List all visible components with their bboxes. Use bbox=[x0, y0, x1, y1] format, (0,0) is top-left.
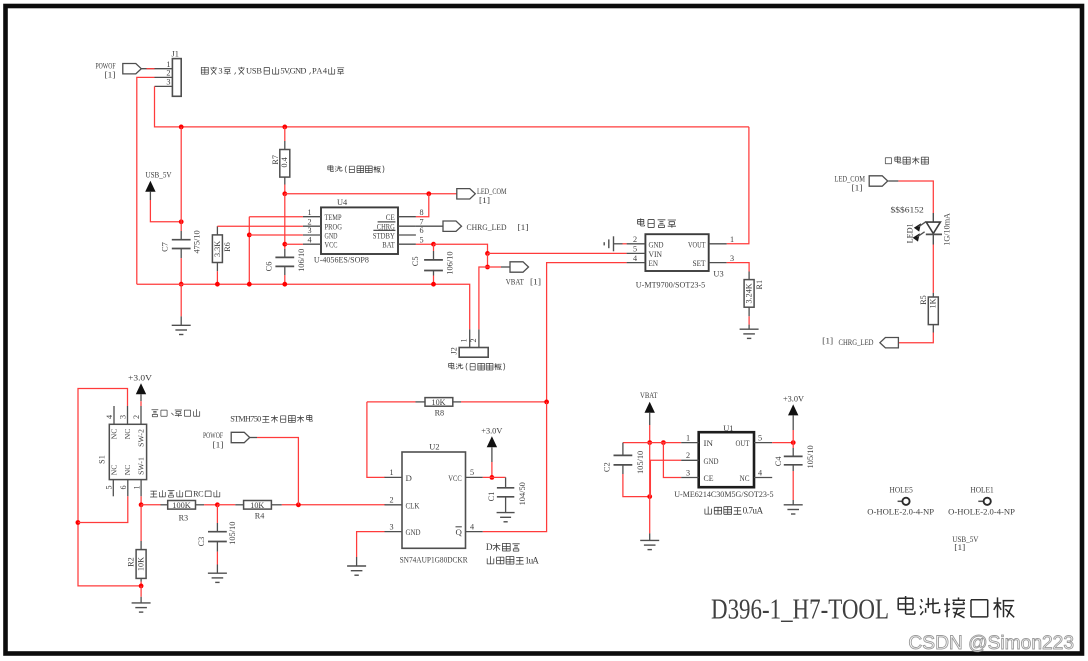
svg-text:5: 5 bbox=[470, 468, 474, 477]
wire PROG pin2 from R6 bbox=[217, 225, 303, 227]
wire VBAT node to J2 pin2 bbox=[479, 267, 488, 329]
ground U2 bbox=[356, 557, 358, 566]
svg-text:GND: GND bbox=[406, 527, 421, 537]
svg-text:PA4: PA4 bbox=[312, 67, 328, 76]
svg-text:2: 2 bbox=[686, 451, 690, 460]
wire S1 pin3 loop bbox=[78, 389, 141, 586]
junction R6/rail bbox=[215, 282, 220, 287]
capacitor C5 bbox=[433, 244, 435, 251]
diode LED1 bbox=[926, 222, 940, 233]
junction GND pin3 node bbox=[247, 233, 252, 238]
svg-text:NC: NC bbox=[109, 429, 118, 440]
svg-text:NC: NC bbox=[123, 465, 132, 476]
wire BAT pin5 bbox=[416, 243, 434, 245]
svg-text:1: 1 bbox=[132, 485, 141, 489]
svg-text:4: 4 bbox=[758, 468, 762, 477]
note charge indicator bbox=[885, 156, 928, 164]
wire U2 GND to ground bbox=[357, 532, 385, 557]
svg-text:POWOF: POWOF bbox=[96, 61, 116, 70]
wire S1 pin6 bbox=[78, 496, 128, 522]
svg-text:2: 2 bbox=[469, 338, 478, 342]
junction R4/POWOF bbox=[296, 502, 301, 507]
svg-text:TEMP: TEMP bbox=[325, 212, 342, 222]
svg-text:R2: R2 bbox=[127, 557, 136, 567]
svg-text:3: 3 bbox=[390, 522, 394, 531]
svg-text:3: 3 bbox=[308, 226, 312, 235]
svg-text:VBAT: VBAT bbox=[640, 390, 658, 400]
wire vertical TEMP-GND-rail bbox=[248, 217, 250, 285]
wire R8 to D pin bbox=[367, 402, 385, 478]
svg-text:U-4056ES/SOP8: U-4056ES/SOP8 bbox=[314, 254, 370, 264]
svg-text:VCC: VCC bbox=[325, 240, 338, 250]
svg-text:C5: C5 bbox=[411, 256, 420, 266]
svg-text:CHRG_LED: CHRG_LED bbox=[839, 338, 874, 347]
note power < 0.7uA bbox=[705, 507, 742, 515]
svg-text:GND: GND bbox=[704, 456, 719, 466]
junction VCC U2 bbox=[490, 475, 495, 480]
svg-text:1G/10mA: 1G/10mA bbox=[943, 213, 952, 246]
op-amp U4 box bbox=[321, 207, 398, 254]
svg-text:U4: U4 bbox=[337, 198, 348, 207]
svg-text:C3: C3 bbox=[197, 537, 206, 547]
svg-text:475/10: 475/10 bbox=[192, 230, 201, 253]
junction R8/EN bbox=[544, 400, 549, 405]
junction VIN node bbox=[485, 251, 490, 256]
svg-text:BAT: BAT bbox=[382, 240, 395, 250]
ground C1 bbox=[497, 512, 515, 514]
svg-text:R5: R5 bbox=[919, 295, 928, 305]
junction 5V rail / R7 branch bbox=[282, 125, 287, 130]
U4 right pin stubs bbox=[398, 216, 416, 218]
svg-text:5: 5 bbox=[104, 485, 113, 489]
resistor R7 bbox=[284, 127, 286, 141]
svg-text:NC: NC bbox=[109, 465, 118, 476]
svg-text:[1]: [1] bbox=[105, 71, 116, 80]
U1 left pins bbox=[681, 442, 699, 444]
capacitor C1 bbox=[505, 477, 507, 487]
junction VCC node bbox=[282, 242, 287, 247]
wire VCC pin4 bbox=[285, 243, 303, 245]
port VBAT bbox=[510, 262, 529, 272]
wire OUT to +3.0V bbox=[772, 442, 793, 444]
svg-text:3.3K: 3.3K bbox=[213, 241, 222, 257]
svg-text:$$$6152: $$$6152 bbox=[891, 205, 924, 215]
U3 pins left bbox=[627, 243, 646, 245]
wire POWOF to CLK net bbox=[250, 437, 257, 439]
svg-text:LED_COM: LED_COM bbox=[835, 174, 866, 183]
svg-text:USB_5V: USB_5V bbox=[146, 170, 173, 180]
svg-text:C4: C4 bbox=[774, 456, 783, 467]
svg-text:1: 1 bbox=[166, 60, 170, 69]
U2 right pins bbox=[466, 476, 483, 478]
op-amp U1 box bbox=[699, 432, 754, 487]
svg-text:3.24K: 3.24K bbox=[744, 283, 753, 303]
wire LED to R5 bbox=[932, 234, 934, 244]
U1 right pins bbox=[754, 442, 772, 444]
svg-text:CLK: CLK bbox=[406, 500, 421, 510]
svg-text:STMH750: STMH750 bbox=[230, 415, 261, 424]
U4 left pin stubs bbox=[303, 216, 321, 218]
U4 STDBY overline bbox=[373, 229, 395, 231]
junction LED_COM / CE branch bbox=[426, 191, 431, 196]
svg-text:0.7uA: 0.7uA bbox=[743, 506, 764, 516]
svg-text:3: 3 bbox=[730, 254, 734, 263]
svg-text:VOUT: VOUT bbox=[688, 239, 706, 249]
svg-text:3: 3 bbox=[166, 78, 170, 87]
svg-text:5: 5 bbox=[420, 235, 424, 244]
svg-text:LED1: LED1 bbox=[905, 223, 914, 243]
svg-text:U3: U3 bbox=[713, 270, 723, 279]
svg-text:2: 2 bbox=[308, 217, 312, 226]
svg-text:105/10: 105/10 bbox=[636, 451, 645, 474]
wire J1 pin2 to GND rail bbox=[137, 77, 155, 284]
svg-text:D: D bbox=[486, 542, 493, 552]
svg-text:4: 4 bbox=[308, 235, 312, 244]
wire USB_5V to node bbox=[150, 200, 181, 222]
junction VBAT node bbox=[485, 265, 490, 270]
svg-text:4: 4 bbox=[105, 415, 114, 419]
svg-text:[1]: [1] bbox=[954, 543, 965, 552]
svg-text:100K: 100K bbox=[172, 501, 191, 510]
ground main rail bbox=[180, 284, 182, 316]
wire C7 branch upper bbox=[180, 127, 182, 222]
svg-text:[1]: [1] bbox=[479, 196, 490, 205]
port LED_COM bbox=[457, 189, 476, 199]
svg-text:NC: NC bbox=[123, 429, 132, 440]
svg-text:CE: CE bbox=[386, 212, 395, 222]
wire LED_COM line bbox=[285, 193, 457, 195]
svg-text:[1]: [1] bbox=[213, 440, 224, 449]
resistor R4 bbox=[244, 501, 272, 510]
junction R3/C3 bbox=[215, 502, 220, 507]
wire GND pin2 U1 bbox=[650, 460, 681, 496]
svg-text:104/50: 104/50 bbox=[518, 482, 527, 505]
switch S1 box bbox=[109, 424, 146, 479]
junction C5/rail bbox=[431, 282, 436, 287]
svg-text:1: 1 bbox=[459, 338, 468, 342]
svg-text:6: 6 bbox=[420, 226, 424, 235]
wire C7 to GND rail bbox=[180, 249, 182, 259]
svg-text:VBAT: VBAT bbox=[506, 276, 525, 286]
svg-text:4: 4 bbox=[633, 254, 637, 263]
junction 5V rail / C7 branch bbox=[179, 125, 184, 130]
wire EN line bbox=[547, 263, 627, 402]
wire R7 node down to VCC node bbox=[284, 194, 286, 244]
svg-text:10K: 10K bbox=[432, 398, 446, 407]
port POWOF (top-left) bbox=[123, 64, 142, 74]
svg-text:5V,GND: 5V,GND bbox=[280, 67, 306, 76]
ground R1 bbox=[748, 325, 750, 330]
note D flip-flop bbox=[493, 543, 520, 551]
svg-text:3: 3 bbox=[119, 415, 128, 419]
junction C7/GND rail bbox=[179, 282, 184, 287]
svg-text:R8: R8 bbox=[435, 409, 445, 418]
capacitor C2 bbox=[622, 443, 624, 447]
wire S1 pin1 down bbox=[140, 496, 142, 505]
note battery with protection (J2) bbox=[449, 363, 505, 371]
wire CE pin8 to LED_COM bbox=[416, 194, 429, 217]
capacitor C7 bbox=[172, 239, 191, 241]
svg-text:1: 1 bbox=[390, 468, 394, 477]
svg-text:J2: J2 bbox=[450, 347, 459, 354]
svg-text:106/10: 106/10 bbox=[445, 251, 454, 274]
wire GND rail bbox=[137, 284, 470, 329]
wire 5V rail down to U3 VOUT bbox=[727, 127, 749, 244]
junction rail/vert bbox=[247, 282, 252, 287]
svg-text:S1: S1 bbox=[97, 455, 106, 464]
junction C6/rail bbox=[282, 282, 287, 287]
capacitor C3 bbox=[216, 505, 218, 523]
junction S1 pin1 node bbox=[139, 502, 144, 507]
svg-text:U-MT9700/SOT23-5: U-MT9700/SOT23-5 bbox=[636, 280, 706, 290]
U4 CHRG overline bbox=[378, 221, 396, 223]
svg-text:CHRG_LED: CHRG_LED bbox=[467, 223, 507, 232]
junction C2 gnd node bbox=[647, 494, 652, 499]
svg-text:1: 1 bbox=[308, 208, 312, 217]
S1 top pins bbox=[113, 406, 115, 424]
svg-text:NC: NC bbox=[740, 473, 750, 483]
svg-text:OUT: OUT bbox=[736, 438, 750, 448]
svg-text:2: 2 bbox=[132, 415, 141, 419]
svg-text:+3.0V: +3.0V bbox=[783, 393, 805, 403]
svg-text:R4: R4 bbox=[255, 511, 265, 520]
junction CE branch bbox=[661, 440, 666, 445]
note power < 1uA bbox=[487, 556, 524, 564]
svg-text:HOLE5: HOLE5 bbox=[890, 485, 913, 494]
svg-text:U1: U1 bbox=[723, 424, 733, 433]
wire SET to R1 bbox=[727, 263, 749, 272]
svg-text:R7: R7 bbox=[271, 155, 280, 165]
svg-text:SET: SET bbox=[693, 258, 707, 268]
capacitor C4 bbox=[792, 443, 794, 448]
wire VCC pin5 bbox=[483, 476, 506, 478]
svg-text:C7: C7 bbox=[161, 242, 170, 252]
svg-text:10K: 10K bbox=[136, 557, 145, 571]
capacitor C6 bbox=[284, 244, 286, 249]
svg-text:IN: IN bbox=[704, 438, 714, 448]
resistor R1 bbox=[748, 272, 750, 280]
junction loop/pin6 bbox=[76, 520, 81, 525]
svg-text:C6: C6 bbox=[264, 262, 273, 272]
U2 left pins bbox=[385, 476, 403, 478]
svg-text:CE: CE bbox=[704, 473, 714, 483]
svg-text:R6: R6 bbox=[223, 242, 232, 252]
wire J2 pin leads bbox=[469, 329, 471, 347]
ground U3 GND pin (left) bbox=[623, 243, 627, 245]
svg-text:O-HOLE-2.0-4-NP: O-HOLE-2.0-4-NP bbox=[948, 508, 1015, 517]
svg-text:1K: 1K bbox=[929, 298, 938, 308]
svg-text:3: 3 bbox=[218, 67, 222, 76]
svg-text:[1]: [1] bbox=[822, 337, 833, 346]
connector J2 bbox=[459, 348, 488, 358]
note power key bbox=[152, 409, 200, 417]
svg-text:SW-2: SW-2 bbox=[136, 429, 145, 447]
junction OUT node bbox=[791, 440, 796, 445]
svg-text:O-HOLE-2.0-4-NP: O-HOLE-2.0-4-NP bbox=[867, 508, 934, 517]
op-amp U2 box bbox=[402, 452, 466, 548]
svg-text:CSDN @Simon223: CSDN @Simon223 bbox=[908, 633, 1074, 654]
svg-text:106/10: 106/10 bbox=[297, 249, 306, 272]
resistor R8 bbox=[367, 401, 416, 403]
ground R2 bbox=[140, 586, 142, 597]
svg-text:VCC: VCC bbox=[448, 473, 462, 483]
svg-text:D396-1_H7-TOOL: D396-1_H7-TOOL bbox=[711, 595, 889, 626]
svg-text:[1]: [1] bbox=[518, 223, 529, 232]
svg-text:C2: C2 bbox=[603, 462, 612, 472]
svg-text:105/10: 105/10 bbox=[228, 522, 237, 545]
svg-text:1: 1 bbox=[686, 433, 690, 442]
wire CE branch bbox=[663, 443, 681, 478]
wire VBAT port stub bbox=[488, 266, 502, 268]
wire POWOF to J1 pin1 bbox=[141, 68, 172, 70]
junction R7 bottom / LED_COM line bbox=[282, 191, 287, 196]
wire node to C7 bbox=[180, 222, 182, 231]
svg-text:J1: J1 bbox=[172, 50, 179, 59]
ground C4 bbox=[792, 500, 794, 505]
wire LED_COM to LED bbox=[888, 180, 898, 182]
junction BAT/C5 bbox=[431, 242, 436, 247]
svg-text:4: 4 bbox=[470, 522, 474, 531]
wire VBAT node down bbox=[649, 443, 651, 497]
wire TEMP pin1 bbox=[249, 216, 303, 218]
op-amp U3 box bbox=[645, 234, 708, 271]
wire VIN line bbox=[488, 252, 627, 254]
wire down to VBAT node bbox=[487, 253, 489, 267]
S1 bottom pins bbox=[112, 480, 114, 497]
svg-text:2: 2 bbox=[633, 235, 637, 244]
wire CHRG pin7 to port bbox=[416, 225, 443, 227]
U3 pins right bbox=[709, 243, 727, 245]
wire Q to EN net bbox=[483, 402, 547, 532]
svg-text:R1: R1 bbox=[755, 280, 764, 290]
resistor R3 bbox=[168, 501, 196, 510]
svg-text:8: 8 bbox=[420, 208, 424, 217]
svg-text:[1]: [1] bbox=[530, 276, 541, 286]
ground C3 bbox=[216, 565, 218, 574]
svg-text:C1: C1 bbox=[487, 492, 496, 502]
svg-text:+3.0V: +3.0V bbox=[481, 426, 503, 436]
port CHRG_LED (U4) bbox=[443, 221, 462, 231]
svg-text:R3: R3 bbox=[179, 513, 189, 522]
resistor R2 bbox=[140, 505, 142, 541]
svg-text:1uA: 1uA bbox=[525, 555, 539, 565]
svg-text:RC: RC bbox=[193, 489, 204, 498]
note STM断电 bbox=[262, 415, 312, 423]
svg-text:USB: USB bbox=[246, 67, 262, 76]
svg-text:6: 6 bbox=[119, 485, 128, 489]
note long-press RC bbox=[150, 490, 220, 497]
wire J1 pin3 to 5V rail bbox=[155, 86, 749, 127]
note battery with protection (top) bbox=[328, 165, 384, 173]
svg-text:SN74AUP1G80DCKR: SN74AUP1G80DCKR bbox=[400, 555, 468, 565]
connector J1 bbox=[172, 59, 181, 97]
svg-text:2: 2 bbox=[390, 496, 394, 505]
svg-text:5: 5 bbox=[758, 433, 762, 442]
port LED_COM (right) bbox=[869, 176, 888, 186]
resistor R5 bbox=[928, 297, 938, 325]
svg-text:EN: EN bbox=[649, 258, 659, 268]
svg-text:POWOF: POWOF bbox=[203, 431, 223, 440]
port CHRG_LED (right) bbox=[880, 338, 899, 348]
resistor R6 bbox=[216, 226, 218, 235]
svg-text:D: D bbox=[406, 473, 412, 483]
wire C3 node to R4 bbox=[217, 504, 235, 506]
svg-text:Q: Q bbox=[455, 527, 462, 537]
wire BAT to VIN corner bbox=[434, 244, 488, 253]
svg-text:105/10: 105/10 bbox=[806, 445, 815, 468]
svg-text:3: 3 bbox=[686, 468, 690, 477]
svg-text:[1]: [1] bbox=[852, 184, 863, 193]
svg-text:+3.0V: +3.0V bbox=[128, 372, 153, 382]
svg-text:10K: 10K bbox=[250, 501, 264, 510]
wire pin1 to R3 bbox=[141, 504, 160, 506]
junction VBAT/C2/IN bbox=[647, 440, 652, 445]
svg-text:GND: GND bbox=[649, 239, 664, 249]
ground C2 node bbox=[649, 497, 651, 534]
note wire-3 to USB socket bbox=[201, 67, 344, 75]
wire GND pin3 bbox=[249, 234, 303, 236]
svg-text:7: 7 bbox=[420, 217, 424, 226]
svg-text:HOLE1: HOLE1 bbox=[970, 485, 993, 494]
note electronic switch bbox=[638, 218, 676, 227]
svg-text:5: 5 bbox=[633, 245, 637, 254]
svg-text:U-ME6214C30M5G/SOT23-5: U-ME6214C30M5G/SOT23-5 bbox=[674, 489, 774, 499]
junction R2 bottom bbox=[139, 584, 144, 589]
svg-text:1: 1 bbox=[730, 235, 734, 244]
wire IN line bbox=[623, 442, 681, 444]
svg-text:U2: U2 bbox=[429, 443, 439, 452]
svg-text:SW-1: SW-1 bbox=[136, 457, 145, 475]
svg-text:0.4: 0.4 bbox=[280, 157, 289, 167]
svg-text:2: 2 bbox=[166, 69, 170, 78]
junction USB_5V node bbox=[179, 219, 184, 224]
